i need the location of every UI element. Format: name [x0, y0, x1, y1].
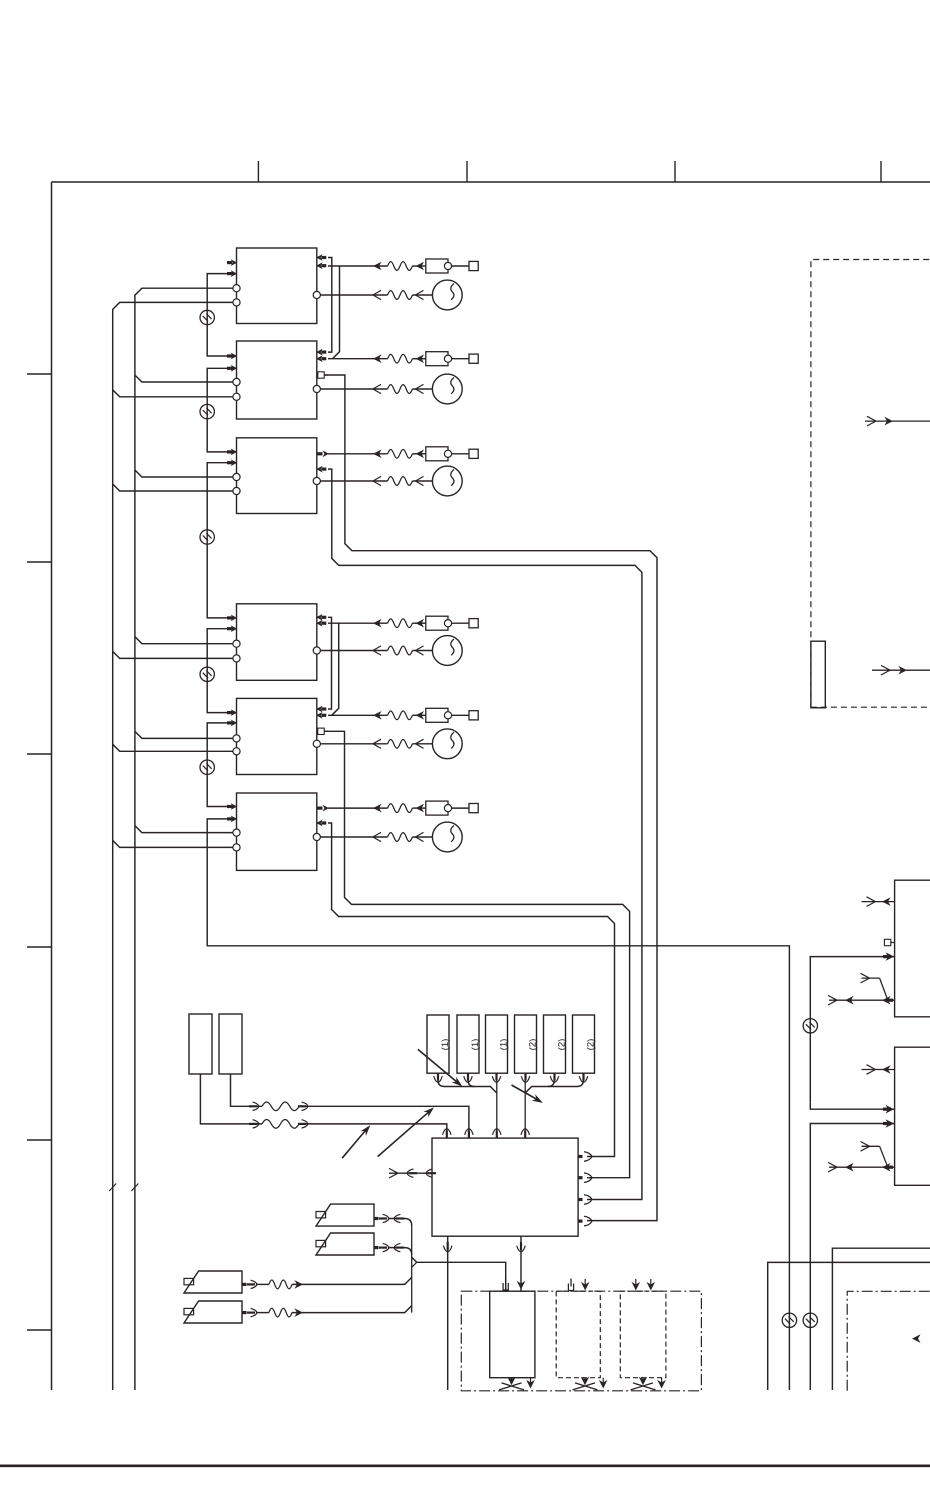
ECU bottom pin 1 wire [447, 1236, 449, 1390]
block 5 right pin a (arrow in) [316, 706, 322, 713]
wire block2 pb to block3 pa [207, 368, 233, 452]
wire sensor1 to ECU top pin1 [200, 1074, 262, 1124]
ECU right pin arrow [578, 1155, 582, 1158]
block 3 left pin c1 (circle) [233, 473, 240, 480]
wire plug2 to junction [374, 1246, 379, 1249]
fan box3 second output arrow [661, 1378, 663, 1385]
igniter block 5 [237, 698, 317, 774]
sensor rectangle 2 [219, 1014, 242, 1074]
callout arrow 2 [378, 1109, 432, 1156]
connector 5 down arrow [553, 1073, 555, 1081]
junction branch to fan box [412, 1257, 506, 1291]
spark plug lamp row 2 [320, 388, 387, 390]
bus B tap block 4 c1 [135, 637, 233, 644]
wire conn4 down to ECU [524, 1073, 526, 1130]
plug connector 1 [316, 1204, 374, 1226]
connector 3 down arrow [495, 1073, 497, 1081]
noise filter symbol 5 [200, 760, 214, 774]
plug connector 4 [184, 1301, 242, 1323]
plug connector 2 [316, 1233, 374, 1255]
ECU top pin arrow [468, 1131, 470, 1139]
igniter block 4 [237, 604, 317, 681]
block 1 left pin c1 (circle) [233, 285, 240, 292]
fan box2 second output arrow [602, 1378, 604, 1385]
callout arrow 4 [512, 1085, 541, 1102]
connector 6 down arrow [582, 1073, 584, 1081]
spark plug lamp row 1 [320, 294, 387, 296]
noise filter symbol 7 [782, 1313, 796, 1327]
route block2 stub to ECU pin R4 [324, 375, 657, 1221]
svg-text:(1): (1) [470, 1039, 481, 1051]
harness arrow 2 [872, 669, 930, 671]
ECU box [432, 1138, 578, 1236]
block 1 right pin b (arrow in) [316, 262, 322, 269]
connector and cap row 6 [328, 807, 388, 809]
wire block6 pb down and across to bottom right [207, 819, 789, 1390]
route block5 stub to ECU pin R2 [324, 731, 629, 1177]
off-page wire lower [768, 1262, 930, 1390]
block 3 left pin b (arrow) [227, 461, 232, 464]
fan box3 input stubs [635, 1279, 637, 1287]
wire conn3 down to ECU [496, 1073, 498, 1130]
switch box mid [895, 1047, 930, 1185]
fan box2 input stubs [570, 1279, 572, 1287]
block 6 right pin a (arrow out) [318, 806, 323, 809]
igniter block 3 [237, 438, 317, 514]
route block6 pb to ECU pin R1 [328, 823, 615, 1157]
block 5 left pin b (arrow) [227, 721, 232, 724]
block 5 left pin c1 (circle) [233, 735, 240, 742]
switch box top pin4 wire [829, 999, 895, 1001]
fan box1 second output arrow [530, 1378, 532, 1385]
spark plug lamp row 5 [320, 743, 387, 745]
switch box top pin1 [862, 901, 895, 903]
block 6 right circle pin [313, 833, 320, 840]
connector and cap row 1 [328, 265, 388, 267]
wire chain to switch boxes [810, 957, 894, 1103]
block 4 left pin c1 (circle) [233, 640, 240, 647]
ECU right pin arrow [578, 1219, 582, 1222]
svg-text:(2): (2) [557, 1039, 568, 1051]
switch box mid pin4 wire [829, 1166, 895, 1168]
relay connector (1) #2 [457, 1015, 479, 1073]
wire chain into mid box [810, 1102, 894, 1109]
ECU left pin wire [389, 1172, 432, 1174]
wire conn1 to bus [438, 1073, 497, 1093]
callout arrow 3 [418, 1049, 461, 1085]
wire block1 pa to block2 pa [328, 258, 332, 353]
wire conn6 to bus [548, 1073, 584, 1086]
switch box top contact [862, 977, 880, 979]
block 4 right pin a (arrow in) [316, 614, 322, 621]
dashed harness box [811, 260, 930, 708]
sensor rectangle 1 [189, 1014, 212, 1074]
off-page wire upper [832, 1248, 930, 1390]
wire sensor2 to ECU top pin2 [231, 1074, 263, 1106]
block 1 right pin a (arrow in) [316, 254, 322, 261]
switch box mid pin1 [862, 1069, 895, 1071]
block 4 right pin b (arrow in) [316, 620, 322, 627]
block 6 left pin a (arrow) [227, 805, 232, 808]
block 4 right circle pin [313, 647, 320, 654]
callout arrow 1 [342, 1127, 368, 1158]
switch box mid contact [862, 1145, 880, 1147]
switch box top square stub [884, 939, 890, 945]
block 6 right pin b (arrow in) [316, 820, 322, 827]
block 2 square stub pin [318, 372, 324, 378]
connector and cap row 2 [328, 358, 388, 360]
block 5 right circle pin [313, 740, 320, 747]
block 2 left pin c1 (circle) [233, 378, 240, 385]
connector 1 down arrow [437, 1073, 439, 1081]
block 5 right pin b (arrow in) [316, 712, 322, 719]
block 1 left pin b (arrow) [227, 272, 232, 275]
wire conn2 to bus [468, 1073, 475, 1086]
wire conn5 to bus [525, 1073, 554, 1093]
harness edge connector rect [811, 641, 825, 708]
block 5 square stub pin [318, 728, 324, 734]
block 4 left pin a (arrow) [227, 616, 232, 619]
bus A tap block 3 c2 [113, 484, 233, 491]
wire block1 pb to block2 pa [207, 274, 233, 356]
connector 2 down arrow [467, 1073, 469, 1081]
block 6 left pin c1 (circle) [233, 829, 240, 836]
right fan dash-dot box [847, 1291, 930, 1391]
ground crow foot 1 [511, 1378, 513, 1383]
junction vertical [411, 1226, 413, 1313]
block 2 left pin b (arrow) [227, 367, 232, 370]
switch box top blade [880, 978, 888, 1000]
fan motor box 3 (dashed) [620, 1291, 666, 1378]
ECU right pin arrow [578, 1176, 582, 1179]
svg-text:(2): (2) [528, 1039, 539, 1051]
bus A tap block 4 c2 [113, 651, 233, 658]
block 3 right pin b (arrow in) [316, 466, 322, 473]
ECU top pin arrow [524, 1131, 526, 1139]
block 3 right circle pin [313, 477, 320, 484]
block 3 left pin c2 (circle) [233, 487, 240, 494]
fan outer dash-dot box [461, 1291, 701, 1391]
ground crow foot 2 [584, 1378, 586, 1383]
bus B start at block1 c1 [135, 288, 233, 1390]
igniter block 1 [237, 248, 317, 324]
igniter block 2 [237, 341, 317, 419]
spark plug lamp row 4 [320, 650, 387, 652]
relay connector (1) #3 [486, 1015, 508, 1073]
bus A start at block1 c2 [113, 302, 233, 1390]
wire into mid box lower [810, 1124, 894, 1391]
block 6 left pin b (arrow) [227, 817, 232, 820]
wire block4 pb to block5 pb [332, 623, 339, 715]
igniter block 6 [237, 793, 317, 870]
block 4 left pin c2 (circle) [233, 655, 240, 662]
block 5 left pin c2 (circle) [233, 748, 240, 755]
wire plug1 to junction [374, 1217, 379, 1220]
harness arrow 1 [865, 420, 930, 422]
noise filter symbol 6 [803, 1019, 817, 1033]
block 3 left pin a (arrow) [227, 450, 232, 453]
connector and cap row 4 [328, 622, 388, 624]
ECU right pin arrow [578, 1198, 582, 1201]
block 2 left pin a (arrow) [227, 354, 232, 357]
wire plug4 [242, 1311, 247, 1314]
relay connector (2) #6 [573, 1015, 595, 1073]
ECU top pin arrow [446, 1131, 448, 1139]
block 1 left pin c2 (circle) [233, 299, 240, 306]
ground crow foot 3 [642, 1378, 644, 1383]
block 5 left pin a (arrow) [227, 711, 232, 714]
svg-text:(2): (2) [586, 1039, 597, 1051]
connector and cap row 5 [328, 714, 388, 716]
spark plug lamp row 6 [320, 836, 387, 838]
switch box mid blade [880, 1146, 888, 1167]
noise filter symbol 1 [200, 310, 214, 324]
bus A tap block 5 c2 [113, 744, 233, 751]
route block3 pb to ECU pin R3 [328, 469, 642, 1199]
bus A tap block 6 c2 [113, 840, 233, 847]
bus B tap block 6 c1 [135, 826, 233, 833]
fan motor box 1 (solid) [490, 1291, 535, 1378]
noise filter symbol 2 [200, 404, 214, 418]
block 4 left pin b (arrow) [227, 627, 232, 630]
wire block3 pb to block4 pa [207, 463, 233, 618]
bus A break slash [109, 1184, 116, 1192]
switch box top [895, 880, 930, 1017]
bus B tap block 3 c1 [135, 470, 233, 477]
block 1 left pin a (arrow) [227, 261, 232, 264]
small left arrow in right fan box [912, 1334, 921, 1343]
relay connector (2) #4 [515, 1015, 537, 1073]
block 2 left pin c2 (circle) [233, 393, 240, 400]
wire block1 pb to block2 pb [333, 266, 340, 359]
wire block4 pa to block5 pa [328, 617, 332, 709]
spark plug lamp row 3 [320, 480, 387, 482]
block 2 right pin a (arrow in) [316, 349, 322, 356]
block 2 right pin b (arrow in) [316, 355, 322, 362]
block 6 left pin c2 (circle) [233, 844, 240, 851]
relay connector (2) #5 [544, 1015, 566, 1073]
wire block4 pb to block5 pa [207, 629, 233, 713]
ECU top pin arrow [496, 1131, 498, 1139]
svg-text:(1): (1) [440, 1039, 451, 1051]
svg-text:(1): (1) [499, 1039, 510, 1051]
relay connector (1) #1 [427, 1015, 449, 1073]
plug connector 3 [184, 1271, 242, 1293]
block 1 right circle pin [313, 291, 320, 298]
noise filter symbol 8 [803, 1313, 817, 1327]
block 3 right pin a (arrow out) [318, 452, 323, 455]
ECU bottom pin 2 wire [520, 1236, 522, 1291]
bus A tap block 2 c2 [113, 390, 233, 397]
noise filter symbol 3 [200, 530, 214, 544]
bus B break slash [131, 1184, 138, 1192]
wire plug3 [242, 1283, 247, 1286]
fan motor box 2 (dashed) [556, 1291, 600, 1378]
wire block5 pb to block6 pa [207, 723, 233, 807]
connector and cap row 3 [328, 453, 388, 455]
noise filter symbol 4 [200, 667, 214, 681]
connector 4 down arrow [524, 1073, 526, 1081]
bus B tap block 5 c1 [135, 731, 233, 738]
block 2 right circle pin [313, 385, 320, 392]
bus B tap block 2 c1 [135, 375, 233, 382]
